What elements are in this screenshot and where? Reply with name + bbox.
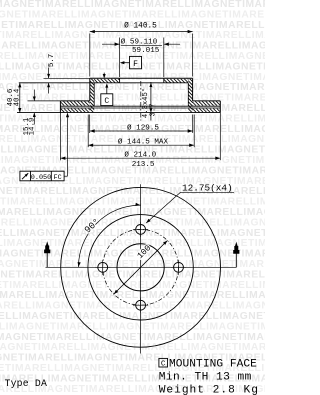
FCF leader to ring bottom	[64, 175, 67, 177]
svg-text:F: F	[133, 60, 138, 69]
svg-text:59.015: 59.015	[132, 47, 160, 55]
bore edge right	[163, 78, 165, 83]
svg-text:MAGNETIMARELLIMAGNETIMARELLIMA: MAGNETIMARELLIMAGNETIMARELLIMAGNETIMAREL…	[0, 72, 265, 83]
svg-text:213.5: 213.5	[132, 161, 155, 169]
dimension Ø 140.5	[89, 34, 91, 77]
svg-text:Ø 140.5: Ø 140.5	[124, 22, 157, 31]
svg-text:MAGNETIMARELLIMAGNETIMARELLIMA: MAGNETIMARELLIMAGNETIMARELLIMAGNETIMAREL…	[0, 228, 265, 239]
svg-text:12.75(x4): 12.75(x4)	[182, 182, 233, 193]
svg-text:Ø 144.5 MAX: Ø 144.5 MAX	[118, 137, 169, 146]
svg-text:MAGNETIMARELLIMAGNETIMARELLIMA: MAGNETIMARELLIMAGNETIMARELLIMAGNETIMAREL…	[0, 238, 265, 249]
svg-text:MAGNETIMARELLIMAGNETIMARELLIMA: MAGNETIMARELLIMAGNETIMARELLIMAGNETIMAREL…	[0, 321, 265, 332]
dimension 40.6/40.4	[19, 83, 21, 113]
bore edge left	[119, 78, 121, 83]
center bore circle Ø59	[117, 244, 164, 291]
bolt hole bottom Ø12.75	[136, 300, 146, 310]
svg-text:Type DA: Type DA	[5, 378, 48, 389]
dimension 4.3x45 / 3.7 line	[150, 82, 152, 121]
svg-text:MAGNETIMARELLIMAGNETIMARELLIMA: MAGNETIMARELLIMAGNETIMARELLIMAGNETIMAREL…	[0, 332, 265, 343]
svg-text:MAGNETIMARELLIMAGNETIMARELLIMA: MAGNETIMARELLIMAGNETIMARELLIMAGNETIMAREL…	[0, 113, 265, 124]
svg-text:MAGNETIMARELLIMAGNETIMARELLIMA: MAGNETIMARELLIMAGNETIMARELLIMAGNETIMAREL…	[0, 249, 265, 260]
hat mounting face inner line with left extension	[19, 82, 189, 84]
dimension 5.7	[44, 77, 90, 79]
section arrow left	[46, 253, 48, 267]
dimension Ø 59.110/59.015	[119, 38, 121, 78]
svg-text:3.7: 3.7	[150, 104, 158, 117]
svg-text:MAGNETIMARELLIMAGNETIMARELLIMA: MAGNETIMARELLIMAGNETIMARELLIMAGNETIMAREL…	[0, 197, 265, 208]
hat plate arrow	[103, 73, 105, 78]
note C MOUNTING FACE	[159, 358, 168, 367]
svg-text:MAGNETIMARELLIMAGNETIMARELLIMA: MAGNETIMARELLIMAGNETIMARELLIMAGNETIMAREL…	[0, 207, 265, 218]
bolt hole top Ø12.75	[136, 225, 146, 235]
svg-text:Ø 129.5: Ø 129.5	[127, 123, 159, 132]
svg-text:14.9: 14.9	[29, 118, 37, 136]
svg-text:5.7: 5.7	[48, 54, 56, 67]
svg-text:MAGNETIMARELLIMAGNETIMARELLIMA: MAGNETIMARELLIMAGNETIMARELLIMAGNETIMAREL…	[0, 301, 265, 312]
datum flag F	[130, 56, 142, 68]
horizontal centerline	[46, 266, 237, 268]
hat wall left (hatched)	[56, 79, 128, 113]
svg-text:C: C	[104, 97, 109, 106]
90 degree angular dimension arc	[78, 205, 140, 267]
centerline	[140, 81, 142, 121]
bolt hole right Ø12.75	[174, 262, 184, 272]
hat wall right (hatched)	[155, 79, 227, 113]
svg-text:MOUNTING FACE: MOUNTING FACE	[169, 359, 257, 371]
ring bottom line with left extension	[17, 112, 220, 114]
ring top left extension line	[28, 100, 61, 102]
vent channel lines	[60, 105, 220, 107]
svg-text:MAGNETIMARELLIMAGNETIMARELLIMA: MAGNETIMARELLIMAGNETIMARELLIMAGNETIMAREL…	[0, 259, 265, 270]
bolt circle Ø100 (dash-dot)	[103, 229, 179, 305]
bolt hole left Ø12.75	[98, 262, 108, 272]
bolt circle dimension 100	[114, 241, 168, 295]
disc friction ring left section (hatched)	[56, 101, 92, 105]
svg-text:FC: FC	[54, 174, 62, 182]
svg-text:MAGNETIMARELLIMAGNETIMARELLIMA: MAGNETIMARELLIMAGNETIMARELLIMAGNETIMAREL…	[0, 290, 265, 301]
section arrow right	[235, 254, 237, 268]
dimension Ø 129.5	[89, 115, 91, 134]
svg-text:40.4: 40.4	[14, 88, 22, 106]
svg-text:MAGNETIMARELLIMAGNETIMARELLIMA: MAGNETIMARELLIMAGNETIMARELLIMAGNETIMAREL…	[0, 9, 265, 20]
svg-text:Ø 214.0: Ø 214.0	[124, 151, 156, 160]
svg-text:0.050: 0.050	[31, 174, 51, 182]
disc friction ring right section (hatched)	[188, 101, 224, 105]
svg-text:MAGNETIMARELLIMAGNETIMARELLIMA: MAGNETIMARELLIMAGNETIMARELLIMAGNETIMAREL…	[0, 93, 265, 104]
vertical centerline	[140, 184, 142, 353]
svg-text:C: C	[161, 361, 166, 369]
svg-text:MAGNETIMARELLIMAGNETIMARELLIMA: MAGNETIMARELLIMAGNETIMARELLIMAGNETIMAREL…	[0, 342, 265, 353]
svg-text:MAGNETIMARELLIMAGNETIMARELLIMA: MAGNETIMARELLIMAGNETIMARELLIMAGNETIMAREL…	[0, 217, 265, 228]
dimension 15.1/14.9	[33, 90, 35, 101]
svg-text:Weight 2.8 Kg: Weight 2.8 Kg	[159, 385, 259, 395]
outer circle Ø213.5	[61, 187, 221, 347]
hat top plate (hatched)	[90, 79, 122, 83]
swept area circle Ø144.5	[88, 215, 193, 320]
svg-text:MAGNETIMARELLIMAGNETIMARELLIMA: MAGNETIMARELLIMAGNETIMARELLIMAGNETIMAREL…	[0, 311, 265, 322]
svg-text:MAGNETIMARELLIMAGNETIMARELLIMA: MAGNETIMARELLIMAGNETIMARELLIMAGNETIMAREL…	[0, 82, 265, 93]
dimension Ø 144.5 MAX	[87, 115, 89, 148]
datum flag C	[101, 94, 113, 106]
dimension Ø 214.0 / 213.5	[59, 113, 61, 161]
svg-text:Min. TH 13 mm: Min. TH 13 mm	[159, 372, 252, 384]
hat top surface	[90, 77, 193, 79]
feature control frame runout 0.050 FC	[20, 171, 64, 181]
